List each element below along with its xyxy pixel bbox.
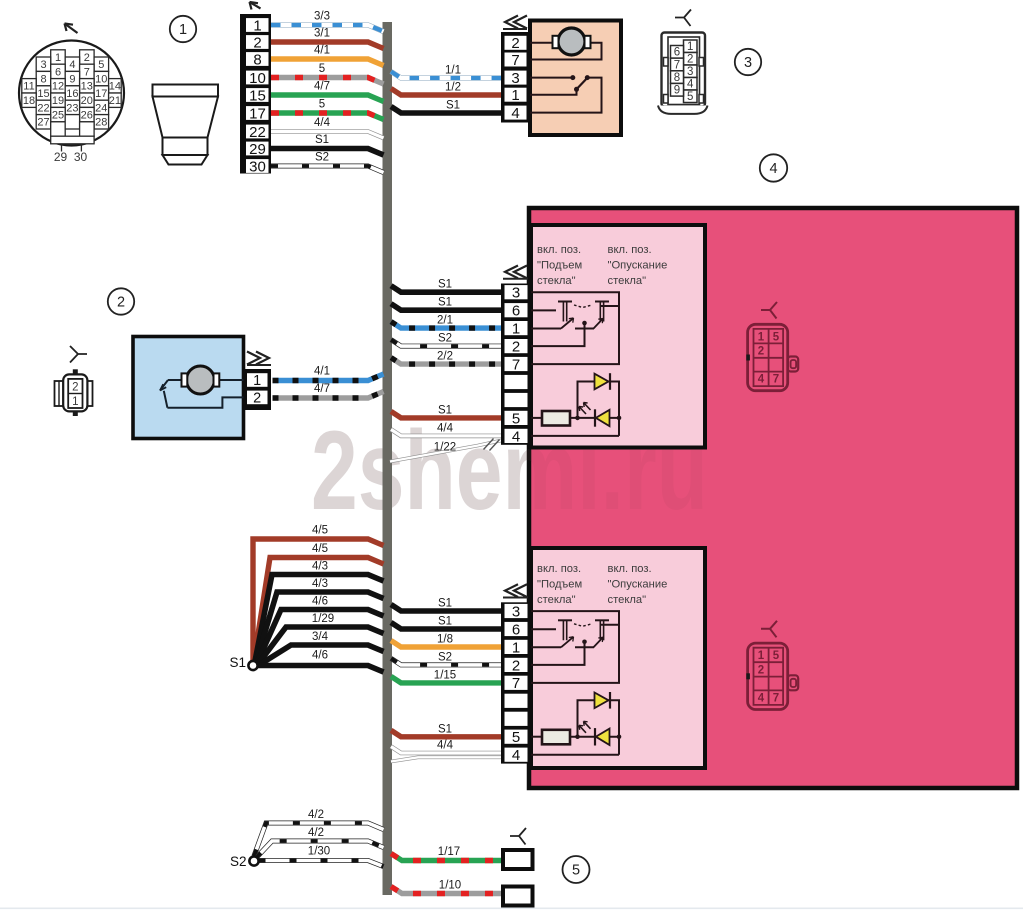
svg-text:1/2: 1/2	[445, 82, 461, 94]
svg-text:3: 3	[40, 59, 46, 71]
svg-text:4: 4	[512, 747, 520, 764]
svg-text:19: 19	[52, 95, 64, 107]
svg-text:1/8: 1/8	[437, 634, 453, 646]
svg-text:2: 2	[758, 346, 764, 358]
svg-text:1: 1	[72, 396, 78, 408]
svg-text:2: 2	[117, 295, 125, 311]
svg-text:18: 18	[23, 95, 35, 107]
svg-text:30: 30	[74, 150, 88, 164]
svg-text:4/5: 4/5	[312, 525, 328, 537]
svg-text:6: 6	[512, 303, 520, 320]
svg-text:2: 2	[512, 339, 520, 356]
svg-text:4: 4	[769, 161, 777, 177]
svg-text:4/3: 4/3	[312, 578, 328, 590]
svg-text:12: 12	[52, 81, 64, 93]
svg-text:4: 4	[758, 693, 765, 705]
svg-text:8: 8	[40, 74, 46, 86]
svg-text:24: 24	[95, 102, 107, 114]
svg-text:1: 1	[253, 17, 261, 34]
svg-text:10: 10	[95, 74, 107, 86]
svg-text:7: 7	[512, 356, 520, 373]
svg-text:2: 2	[512, 657, 520, 674]
svg-text:6: 6	[674, 47, 680, 59]
svg-text:1: 1	[758, 650, 765, 662]
svg-text:29: 29	[249, 141, 266, 158]
svg-text:"Подъем: "Подъем	[537, 578, 582, 590]
svg-text:2: 2	[253, 391, 261, 407]
svg-text:8: 8	[674, 72, 680, 84]
svg-text:1: 1	[512, 639, 520, 656]
svg-text:1/15: 1/15	[434, 669, 456, 681]
svg-text:2/1: 2/1	[437, 315, 453, 327]
svg-text:4/4: 4/4	[437, 740, 454, 752]
svg-text:"Опускание: "Опускание	[608, 260, 668, 272]
svg-text:29: 29	[54, 150, 68, 164]
svg-text:стекла": стекла"	[537, 594, 576, 606]
svg-text:17: 17	[95, 88, 107, 100]
svg-text:6: 6	[512, 621, 520, 638]
svg-text:7: 7	[773, 693, 779, 705]
svg-text:1: 1	[687, 41, 693, 53]
svg-text:S1: S1	[315, 134, 329, 146]
svg-text:28: 28	[95, 117, 107, 129]
svg-text:1: 1	[512, 321, 520, 338]
svg-text:7: 7	[511, 52, 519, 69]
svg-text:2: 2	[758, 665, 764, 677]
svg-text:5: 5	[687, 91, 693, 103]
svg-text:4/1: 4/1	[314, 45, 330, 57]
svg-text:3: 3	[512, 285, 520, 302]
svg-text:22: 22	[249, 124, 266, 141]
svg-text:S1: S1	[438, 404, 452, 416]
svg-text:3: 3	[687, 66, 693, 78]
svg-text:1/30: 1/30	[308, 846, 330, 858]
svg-text:S1: S1	[438, 279, 452, 291]
svg-text:3/1: 3/1	[314, 28, 330, 40]
svg-text:1/1: 1/1	[445, 65, 461, 77]
svg-text:вкл. поз.: вкл. поз.	[537, 563, 581, 575]
svg-text:S2: S2	[315, 152, 329, 164]
svg-text:стекла": стекла"	[608, 594, 647, 606]
svg-text:21: 21	[109, 95, 121, 107]
svg-text:S2: S2	[438, 333, 452, 345]
svg-text:3/4: 3/4	[312, 631, 329, 643]
svg-text:10: 10	[249, 70, 266, 87]
svg-text:вкл. поз.: вкл. поз.	[608, 563, 652, 575]
svg-text:2: 2	[511, 35, 519, 52]
svg-text:3: 3	[512, 603, 520, 620]
svg-text:4/7: 4/7	[314, 81, 330, 93]
svg-text:S1: S1	[438, 598, 452, 610]
svg-text:7: 7	[84, 66, 90, 78]
svg-text:5: 5	[512, 410, 520, 427]
svg-text:27: 27	[37, 117, 49, 129]
svg-text:5: 5	[572, 863, 580, 879]
svg-text:S1: S1	[438, 297, 452, 309]
svg-text:5: 5	[98, 59, 104, 71]
svg-text:1/10: 1/10	[439, 880, 461, 892]
svg-text:7: 7	[773, 374, 779, 386]
svg-text:4: 4	[512, 428, 520, 445]
svg-text:2: 2	[84, 52, 90, 64]
svg-text:3: 3	[511, 70, 519, 87]
svg-text:4/4: 4/4	[437, 422, 454, 434]
svg-text:S1: S1	[229, 655, 246, 670]
svg-text:5: 5	[319, 63, 325, 75]
svg-text:1/22: 1/22	[434, 442, 456, 454]
svg-text:8: 8	[253, 51, 261, 68]
svg-text:11: 11	[23, 81, 34, 93]
svg-text:6: 6	[55, 66, 61, 78]
svg-text:2: 2	[687, 54, 693, 66]
svg-text:4/3: 4/3	[312, 561, 328, 573]
svg-text:4/7: 4/7	[314, 383, 330, 395]
svg-text:25: 25	[52, 110, 64, 122]
svg-text:26: 26	[81, 110, 93, 122]
svg-text:2: 2	[72, 381, 78, 393]
svg-text:4/4: 4/4	[314, 117, 331, 129]
svg-text:4/1: 4/1	[314, 366, 330, 378]
svg-text:1/17: 1/17	[438, 846, 460, 858]
svg-text:1: 1	[511, 87, 519, 104]
svg-text:9: 9	[69, 74, 75, 86]
svg-text:4: 4	[69, 59, 75, 71]
svg-text:4: 4	[511, 105, 519, 122]
svg-text:вкл. поз.: вкл. поз.	[537, 244, 581, 256]
svg-text:4/2: 4/2	[308, 809, 324, 821]
svg-text:S1: S1	[446, 100, 460, 112]
svg-text:5: 5	[319, 99, 325, 111]
svg-text:1: 1	[55, 52, 61, 64]
svg-text:4/6: 4/6	[312, 650, 328, 662]
svg-text:20: 20	[81, 95, 93, 107]
svg-text:17: 17	[249, 105, 266, 122]
svg-text:14: 14	[109, 81, 121, 93]
svg-text:2: 2	[253, 34, 261, 51]
svg-text:"Подъем: "Подъем	[537, 260, 582, 272]
svg-text:"Опускание: "Опускание	[608, 578, 668, 590]
svg-text:4: 4	[758, 374, 765, 386]
svg-text:4: 4	[687, 79, 694, 91]
svg-text:2/2: 2/2	[437, 351, 453, 363]
svg-text:9: 9	[674, 85, 680, 97]
svg-text:1/29: 1/29	[312, 613, 334, 625]
svg-text:15: 15	[37, 88, 49, 100]
svg-text:23: 23	[66, 102, 78, 114]
svg-text:15: 15	[249, 87, 266, 104]
svg-text:1: 1	[179, 22, 187, 38]
svg-text:S1: S1	[438, 723, 452, 735]
svg-text:4/6: 4/6	[312, 596, 328, 608]
svg-text:7: 7	[674, 59, 680, 71]
svg-text:7: 7	[512, 675, 520, 692]
svg-text:1: 1	[758, 331, 765, 343]
svg-text:3: 3	[744, 55, 752, 71]
svg-text:5: 5	[773, 331, 780, 343]
svg-text:S1: S1	[438, 616, 452, 628]
svg-text:30: 30	[249, 158, 266, 175]
svg-text:13: 13	[81, 81, 93, 93]
svg-text:S2: S2	[438, 651, 452, 663]
svg-text:5: 5	[512, 729, 520, 746]
svg-text:4/2: 4/2	[308, 827, 324, 839]
svg-text:5: 5	[773, 650, 780, 662]
svg-text:S2: S2	[230, 854, 247, 869]
svg-text:1: 1	[253, 373, 261, 389]
svg-text:вкл. поз.: вкл. поз.	[608, 244, 652, 256]
svg-text:4/5: 4/5	[312, 543, 328, 555]
svg-text:3/3: 3/3	[314, 11, 330, 23]
svg-text:22: 22	[37, 102, 49, 114]
svg-text:16: 16	[66, 88, 78, 100]
svg-text:стекла": стекла"	[537, 275, 576, 287]
svg-text:стекла": стекла"	[608, 275, 647, 287]
